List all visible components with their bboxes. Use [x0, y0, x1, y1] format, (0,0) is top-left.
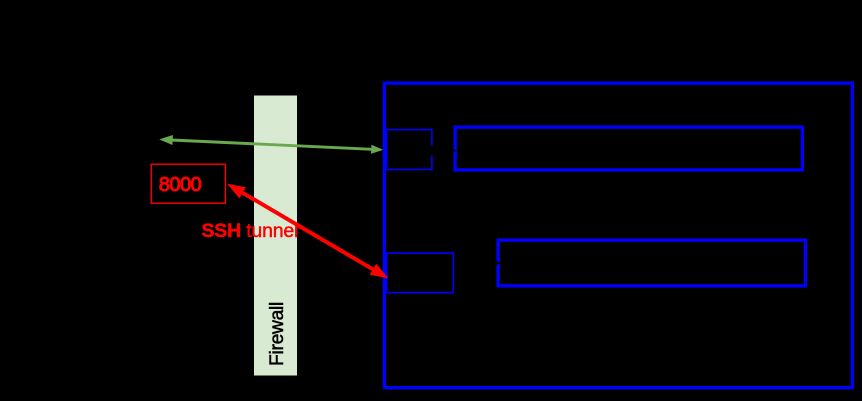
red ssh tunnel arrow (double headed) — [227, 184, 388, 279]
firewall bar — [254, 96, 297, 376]
port box 8000 (small box lower) — [387, 253, 454, 293]
svg-text:Firewall: Firewall — [267, 302, 288, 366]
black arrow port22 to sshd (invisible on black, cuts blue borders) — [421, 145, 457, 156]
server process box (inner rect lower) — [498, 240, 805, 286]
black arrow port8000 to server process (invisible on black, cuts blue border) — [457, 257, 501, 268]
svg-text:8000: 8000 — [159, 174, 202, 196]
svg-text:SSH tunnel: SSH tunnel — [202, 220, 299, 242]
green ssh connection arrow (double headed) — [159, 135, 383, 154]
server box (big blue rectangle) — [384, 83, 852, 388]
sshd process box (inner rect upper) — [455, 127, 802, 170]
port box 22 (small box upper) — [387, 130, 432, 170]
red port 8000 box on local machine — [151, 164, 225, 203]
